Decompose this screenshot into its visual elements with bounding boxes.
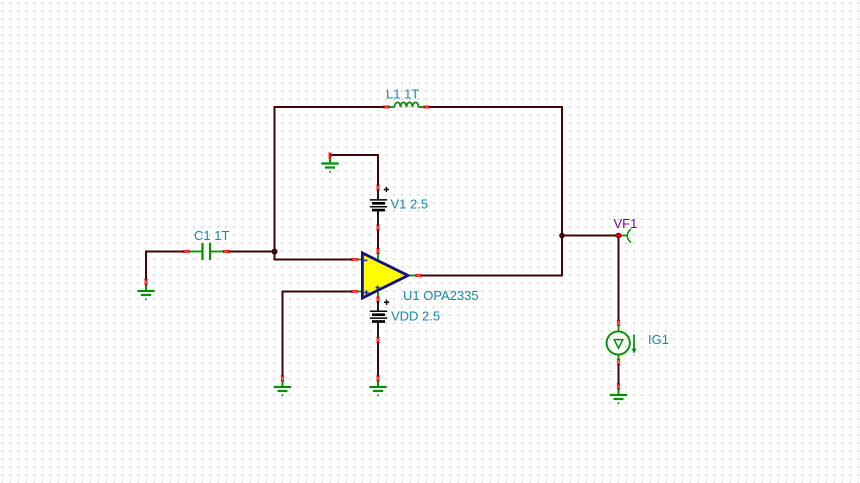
ground below VDD bbox=[369, 381, 386, 396]
pin mark U1 bottom power bbox=[377, 297, 380, 303]
current source IG1 bbox=[607, 325, 637, 361]
wire inverting input bbox=[275, 251, 354, 260]
wire V1 bottom to op-amp V- pin bbox=[377, 229, 379, 250]
svg-text:V1 2.5: V1 2.5 bbox=[391, 197, 429, 212]
svg-text:U1 OPA2335: U1 OPA2335 bbox=[403, 288, 479, 303]
pin mark IG1 bottom bbox=[617, 359, 620, 365]
pin mark U1 top power bbox=[377, 248, 380, 254]
svg-text:IG1: IG1 bbox=[648, 332, 669, 347]
node junction at output/VF1 bbox=[559, 233, 565, 239]
pin mark ground IG1 bbox=[617, 384, 620, 390]
wire C1 left to ground bbox=[146, 252, 186, 282]
wire C1 to node bbox=[227, 251, 275, 253]
wire non-inverting input to ground bbox=[283, 292, 354, 378]
battery VDD 2.5 bbox=[370, 300, 389, 339]
wire VF1 branch bbox=[562, 236, 619, 323]
pin mark ground left bbox=[281, 376, 284, 382]
svg-text:VF1: VF1 bbox=[614, 216, 638, 231]
inductor L1 bbox=[387, 102, 426, 107]
pin mark L1 right bbox=[424, 106, 430, 109]
ground at V1 top rail bbox=[321, 157, 338, 172]
pin mark ground C1 bbox=[145, 279, 148, 285]
wire op-amp output bbox=[420, 275, 563, 277]
pin mark C1 left bbox=[184, 250, 190, 253]
voltage probe VF1 bbox=[620, 229, 631, 243]
ground at C1 left bbox=[137, 285, 154, 300]
pin mark L1 left bbox=[384, 106, 390, 109]
battery V1 2.5 bbox=[370, 187, 389, 226]
pin mark ground V1 bbox=[329, 153, 332, 159]
pin mark V1 bottom bbox=[377, 225, 380, 231]
svg-text:VDD 2.5: VDD 2.5 bbox=[391, 309, 440, 324]
pin mark ground VDD bbox=[377, 376, 380, 382]
wire ground to V1 top bbox=[330, 155, 378, 186]
node junction at C1/feedback bbox=[272, 249, 278, 255]
capacitor C1 bbox=[189, 243, 225, 260]
svg-text:C1 1T: C1 1T bbox=[194, 228, 229, 243]
pin mark U1 output bbox=[416, 274, 422, 277]
ground below IG1 bbox=[610, 389, 627, 404]
pin mark U1 inverting input bbox=[352, 258, 358, 261]
pin mark C1 right bbox=[223, 250, 229, 253]
node junction at VF1 probe corner bbox=[616, 233, 622, 239]
wire top-right loop bbox=[428, 107, 562, 276]
pin mark V1 top bbox=[377, 185, 380, 191]
wire IG1 bottom to ground bbox=[618, 364, 620, 387]
pin mark IG1 top bbox=[617, 320, 620, 326]
svg-text:L1 1T: L1 1T bbox=[386, 87, 419, 102]
wire top-left loop bbox=[275, 107, 386, 252]
op-amp U1 OPA2335 bbox=[357, 251, 417, 301]
ground below non-inverting input bbox=[274, 381, 291, 396]
pin mark VDD bottom bbox=[377, 337, 380, 343]
wire VDD bottom to ground bbox=[377, 342, 379, 378]
pin mark VF1 bbox=[616, 234, 622, 237]
pin mark U1 non-inverting input bbox=[352, 290, 358, 293]
